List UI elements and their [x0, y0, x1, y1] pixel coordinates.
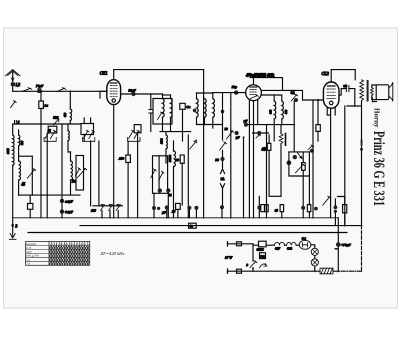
wire: [70, 152, 72, 195]
svg-text:10: 10: [176, 158, 180, 162]
wire U3 right pin: [339, 89, 341, 95]
capacitor blob x316: [314, 207, 318, 211]
wire top rail: [114, 69, 204, 71]
switch arrow in can2a: [151, 169, 156, 178]
svg-text:25: 25: [172, 210, 176, 214]
svg-text:C 1: C 1: [302, 236, 307, 240]
wire: [69, 121, 71, 124]
wire: [173, 141, 175, 218]
wire: [221, 209, 223, 218]
resistor 10 vertical: [180, 155, 184, 163]
svg-text:3: 3: [246, 263, 248, 267]
svg-text:020: 020: [21, 140, 24, 145]
svg-text:1 2 3 4 5 6 7 8 9 10 11 12 13: 1 2 3 4 5 6 7 8 9 10 11 12 13 14 15: [49, 243, 90, 246]
svg-text:Prinz 36 G E 331: Prinz 36 G E 331: [370, 131, 387, 206]
wire U3 pins down: [327, 108, 335, 218]
svg-text:3: 3: [15, 225, 17, 229]
capacitor blobs x154: [152, 206, 156, 210]
wire bus A: [13, 90, 107, 92]
tube U2 cathode arrow: [251, 95, 259, 99]
node: [195, 140, 197, 142]
wire U1 plate to top rail: [113, 70, 115, 80]
wire tap y156: [19, 155, 33, 157]
trimmer t3: [116, 205, 121, 211]
pot bar: [285, 134, 287, 146]
switch x222: [220, 142, 227, 150]
svg-text:45: 45: [275, 209, 279, 213]
node: [273, 94, 275, 96]
wire pot down: [302, 152, 304, 218]
wire stub x196: [167, 209, 197, 217]
svg-text:50: 50: [215, 158, 219, 162]
coil ant primary: [13, 135, 14, 165]
gang3 bracket: [128, 138, 140, 142]
IF2 winding C: [213, 99, 215, 118]
wire: [273, 95, 275, 125]
coil RF lower: [71, 161, 73, 180]
IF note underline: [250, 77, 281, 79]
svg-text:T A: T A: [26, 263, 30, 266]
wire IF2 top: [197, 92, 213, 94]
bandfilter box3: [134, 125, 141, 133]
capacitor blob x312: [310, 149, 314, 153]
capacitor ant coupling: [11, 83, 15, 87]
capacitor +70uF: [336, 242, 341, 247]
wire: [268, 135, 270, 196]
capacitor 0.1uF b: [60, 209, 64, 213]
wire x62 avc: [61, 124, 63, 195]
switch arrow y135: [256, 134, 261, 138]
osc can right rect: [153, 156, 168, 194]
node x243 top: [243, 136, 245, 138]
capacitor box 25: [176, 203, 181, 209]
svg-text:vB: vB: [343, 84, 346, 88]
wire x294: [293, 90, 295, 151]
plug pin top: [227, 242, 229, 246]
wire y133 seg: [253, 132, 269, 134]
tube U3 CL2 oval: [323, 82, 339, 108]
svg-text:Horny: Horny: [373, 108, 381, 128]
wire: [61, 195, 63, 218]
IF1 can frame: [153, 99, 172, 125]
wire x137: [137, 141, 139, 218]
svg-text:K W: K W: [26, 247, 32, 250]
speaker horn: [389, 82, 393, 101]
wire y196 segment: [269, 195, 281, 197]
wire U1 out right: [121, 93, 162, 95]
svg-text:45: 45: [21, 183, 25, 187]
svg-text:Ps: Ps: [71, 180, 76, 184]
capacitor small below: [335, 248, 337, 250]
wire x309: [308, 152, 310, 176]
svg-text:4a: 4a: [190, 224, 194, 228]
capacitor box row x265: [265, 205, 268, 212]
tube U2 mixer circle: [246, 85, 262, 101]
capacitor blob x189: [187, 206, 191, 210]
svg-text:µF: µF: [162, 211, 166, 215]
svg-text:17 W: 17 W: [225, 256, 233, 260]
capacitor 0.1uF a: [60, 199, 64, 203]
wire det left down: [289, 152, 309, 176]
transformer oval C1: [299, 240, 311, 249]
trimmer in IF1: [158, 112, 164, 120]
wire: [18, 180, 20, 195]
svg-text:525: 525: [53, 115, 58, 119]
osc can left rect: [76, 156, 84, 191]
rect box top: [259, 241, 267, 247]
resistor mains hatched: [320, 268, 333, 274]
svg-text:050: 050: [64, 112, 67, 117]
capacitor blob x222 row: [220, 205, 224, 209]
wire x230: [230, 93, 232, 218]
svg-text:µF: µF: [244, 119, 248, 123]
wire x344 tick: [344, 222, 346, 226]
coil L1 x70: [70, 109, 71, 121]
switch wave left: [27, 169, 35, 179]
node: [252, 267, 254, 269]
wire dashdot right: [333, 270, 362, 272]
wire x355: [354, 89, 356, 106]
capacitor box y206: [28, 204, 33, 210]
capacitor box row x262: [261, 205, 265, 212]
tuning gang section3 arrows: [129, 130, 140, 138]
wire y176 ext: [308, 175, 310, 177]
switch det arrow: [297, 152, 302, 159]
bus B+ y218: [13, 217, 339, 219]
svg-text:50: 50: [225, 127, 229, 131]
antenna: [5, 70, 20, 76]
wire y124 mid: [246, 124, 294, 126]
capacitor blob under can a: [158, 188, 162, 192]
trimmer row wire: [93, 205, 123, 207]
resistor 440 box: [267, 143, 271, 150]
tube U2 anode: [250, 86, 257, 88]
bus 2 y225.6: [80, 225, 362, 227]
trimmer arrow y133: [227, 130, 234, 139]
wire: [222, 188, 224, 205]
wire: [167, 193, 169, 218]
switch S1: [22, 88, 31, 92]
wire x182: [182, 109, 184, 141]
wire tube2 right: [261, 90, 323, 100]
wire: [281, 119, 283, 125]
IF2 winding B: [205, 99, 207, 118]
TA jack chevrons: [220, 169, 224, 188]
node: [113, 69, 114, 70]
svg-text:a.1µF: a.1µF: [65, 199, 73, 203]
wire U3 plate up: [330, 70, 332, 82]
svg-text:CK1: CK1: [100, 71, 108, 76]
switch on antenna lead: [11, 101, 17, 108]
tube U3 electrodes: [327, 89, 335, 99]
trimmer 3p: [292, 94, 298, 101]
svg-text:M W: M W: [26, 251, 32, 254]
wire: [12, 218, 14, 233]
wire speaker sec bottom: [372, 98, 376, 102]
wire y106: [347, 105, 362, 107]
svg-text:M+Lg. KW: M+Lg. KW: [26, 255, 39, 258]
wire mains lead bottom: [228, 270, 254, 272]
wire vertical x47: [46, 133, 48, 218]
wire: [84, 118, 90, 141]
trimmer x310: [308, 145, 314, 150]
tube U1 cathode circle: [112, 99, 115, 102]
wire: [204, 117, 206, 124]
capacitor blob row x259: [257, 206, 261, 210]
wire vertical x41: [40, 91, 42, 218]
trimmer t1: [101, 205, 105, 211]
wire speaker leads: [372, 85, 376, 100]
IF3 winding B: [282, 101, 284, 119]
rect box lower: [260, 253, 266, 259]
tube U2 pins down: [249, 100, 257, 218]
gang2 bracket: [82, 138, 94, 142]
capacitor blob x236: [235, 131, 239, 135]
svg-text:3L5M: 3L5M: [257, 249, 264, 252]
svg-text:+70µF: +70µF: [341, 243, 352, 247]
wire: [266, 244, 274, 246]
switch grid arrow: [190, 141, 197, 149]
capacitor box row x309: [307, 205, 310, 212]
capacitor blobs x335: [334, 205, 338, 209]
coil osc B: [174, 151, 176, 167]
switch mains: [250, 261, 257, 268]
wire U1 cathode down: [113, 105, 115, 218]
wire: [137, 133, 139, 141]
lamp 2: [311, 259, 318, 266]
capacitor 01uF blob: [244, 123, 248, 127]
svg-text:470a47REHE 468k.: 470a47REHE 468k.: [246, 73, 275, 77]
plug pin bottom: [227, 269, 229, 273]
resistor AVC zigzag vertical: [279, 134, 283, 144]
wire OT drop: [354, 70, 356, 80]
svg-text:7a2: 7a2: [260, 255, 265, 258]
svg-text:50pF: 50pF: [129, 88, 137, 92]
svg-text:C17: C17: [275, 246, 281, 250]
capacitor blob x158: [157, 207, 160, 210]
capacitor box row x281: [280, 205, 284, 212]
wire: [314, 255, 316, 258]
capacitor blob corner: [294, 98, 298, 102]
capacitor blob y133: [257, 131, 261, 135]
wire: [252, 268, 254, 271]
bandfilter box2: [81, 124, 94, 135]
svg-text:0.1µF: 0.1µF: [65, 210, 73, 214]
OT core bar: [367, 80, 369, 102]
capacitor Ca box: [180, 103, 185, 109]
node: [344, 225, 346, 227]
wire: [341, 88, 355, 90]
capacitor blob x165 row: [165, 205, 169, 209]
IF3 winding A: [274, 101, 276, 119]
svg-text:ZF=428 kHz: ZF=428 kHz: [101, 251, 125, 256]
trimmer 525: [54, 119, 59, 125]
table row labels: [26, 243, 90, 266]
wire vertical x32: [31, 156, 33, 195]
tube U1 CK1: [107, 80, 121, 105]
capacitor U coupling: [346, 86, 349, 92]
wire top rail right: [331, 69, 355, 71]
OT primary coil: [360, 80, 364, 101]
pot wiper arrow: [296, 164, 305, 173]
bandfilter box: [48, 126, 57, 133]
wire x319: [317, 100, 319, 141]
wire horiz y124: [13, 123, 80, 125]
coil sec lower 45: [19, 161, 21, 180]
wire: [285, 244, 287, 246]
capacitor 50 blob: [220, 157, 224, 161]
wire: [18, 130, 20, 161]
wire stub: [258, 196, 260, 218]
table col line main: [48, 242, 50, 266]
svg-text:C88: C88: [287, 246, 293, 250]
tuning gang section2 arrows: [83, 130, 94, 138]
trimmer arrow x326: [323, 196, 331, 205]
wire stub x222b: [230, 217, 232, 219]
wire bus2 corner x361 dashes: [361, 226, 363, 272]
capacitor blob x335b: [334, 210, 337, 213]
svg-text:440: 440: [262, 147, 268, 151]
wire x68: [68, 124, 71, 152]
wire: [12, 165, 14, 217]
wire underline down: [254, 78, 283, 101]
wire antenna lead: [12, 71, 14, 82]
wire stub: [281, 212, 283, 218]
capacitor x150: [150, 94, 152, 132]
wire IF1 top: [163, 94, 171, 96]
svg-text:Ca: Ca: [186, 105, 190, 109]
tube U1 anode bar: [111, 82, 117, 84]
lamp 1: [311, 248, 318, 255]
capacitor small y122: [15, 121, 17, 124]
svg-text:250: 250: [119, 157, 124, 161]
node busA dots: [41, 90, 43, 92]
switch arrow in can: [78, 168, 87, 178]
table row lines: [26, 246, 90, 262]
wire: [311, 245, 315, 248]
wire stubs to bus: [102, 211, 118, 218]
node ground junction: [11, 224, 14, 227]
wire x266: [266, 125, 268, 218]
wire mains lead top: [228, 243, 254, 245]
detector line y152: [289, 151, 310, 153]
capacitor blob x361: [360, 148, 363, 151]
wire horiz y195: [19, 194, 80, 196]
node: [22, 91, 24, 93]
lamp 1 cross: [312, 249, 317, 254]
svg-text:µF: µF: [236, 135, 240, 139]
table hatch cells: [49, 246, 90, 266]
capacitor blob row x303: [301, 206, 305, 210]
IF1 winding A: [163, 99, 165, 118]
rectifier line y245: [253, 244, 259, 246]
wire x345: [344, 106, 346, 226]
coil osc A: [166, 135, 167, 149]
svg-text:50p: 50p: [232, 85, 237, 89]
tuning gang section1 arrows: [45, 130, 56, 138]
wire x128: [127, 141, 129, 218]
wire: [165, 132, 167, 163]
coil sec upper: [19, 135, 20, 146]
capacitor bars x150: [149, 110, 153, 114]
resistor cathode box x319: [316, 125, 320, 132]
lamp 2 cross: [312, 260, 317, 265]
tube U2 electrodes: [250, 90, 257, 95]
wire IF2 bottom rail: [197, 124, 223, 126]
svg-text:1a: 1a: [45, 104, 49, 108]
connector box top: [237, 242, 242, 246]
svg-text:080: 080: [285, 109, 288, 114]
switch wave right: [75, 168, 80, 176]
wire OT bottom: [361, 101, 363, 226]
wire x274: [273, 125, 275, 141]
speaker driver box: [376, 85, 389, 100]
tube U3 cathode circle: [329, 101, 333, 105]
connector box bottom: [237, 269, 242, 273]
transformer oval bars: [302, 243, 307, 247]
wire mains vertical x253: [252, 244, 254, 261]
node bus dots: [12, 90, 363, 273]
wire x188: [187, 135, 189, 218]
wire: [253, 266, 320, 272]
wire x243: [243, 137, 245, 218]
resistor 250 vertical: [126, 155, 131, 163]
table outer: [26, 242, 90, 266]
wire: [29, 195, 31, 218]
svg-text:3p: 3p: [291, 91, 295, 95]
wire x335: [334, 199, 336, 226]
wire: [12, 86, 14, 91]
node: [273, 124, 275, 126]
capacitor blob under can b: [166, 188, 170, 192]
lamp box on bus2: [189, 223, 197, 228]
resistor bar on x361: [361, 140, 363, 146]
wire: [212, 93, 214, 128]
wire x309 low: [308, 176, 310, 218]
tube U1 electrodes: [110, 86, 117, 97]
wire IF1 A: [162, 94, 164, 132]
switch S2: [58, 88, 66, 92]
wire stub x154: [153, 193, 155, 218]
coil small x68: [68, 131, 69, 141]
capacitor det blob2: [287, 160, 292, 165]
choke C88: [287, 242, 297, 245]
capacitor blob x196: [194, 206, 198, 210]
svg-text:5: 5: [18, 120, 20, 124]
ground arrow: [9, 233, 16, 240]
wire vertical x90: [90, 141, 92, 206]
IF2 winding A: [197, 99, 199, 118]
wire tube2 grid: [213, 92, 246, 94]
capacitor 70pF: [37, 88, 41, 93]
gang1 bracket: [44, 138, 56, 142]
svg-text:Kontakte: Kontakte: [26, 243, 37, 246]
svg-text:00000: 00000: [169, 154, 172, 162]
wire zigzag top: [280, 125, 282, 197]
speaker secondary coil: [371, 88, 374, 96]
switch arrow in can2b: [159, 171, 164, 180]
wire: [196, 93, 198, 125]
trimmer t2: [109, 205, 113, 211]
svg-text:70pF: 70pF: [36, 84, 44, 88]
svg-text:0005: 0005: [7, 148, 10, 154]
choke C17: [275, 242, 285, 245]
svg-text:45: 45: [48, 128, 52, 132]
wire U1 grid left: [100, 91, 107, 98]
capacitor blob IF2: [193, 109, 197, 113]
switch lever curve: [260, 263, 267, 267]
wire IF1 bottom rail: [160, 131, 191, 133]
